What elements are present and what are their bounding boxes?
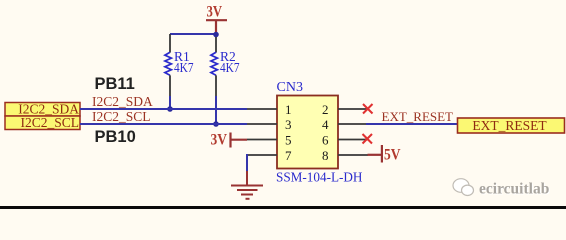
svg-text:6: 6 bbox=[322, 133, 329, 148]
wire pin4 to port bbox=[366, 123, 457, 125]
svg-text:3: 3 bbox=[285, 117, 292, 132]
svg-text:CN3: CN3 bbox=[277, 80, 303, 95]
no-ERC marker pin 6 bbox=[363, 134, 373, 144]
wire top horizontal bbox=[170, 33, 216, 35]
pin 3 bbox=[247, 123, 277, 125]
svg-text:4K7: 4K7 bbox=[220, 60, 240, 75]
power port 3V at pin 5 bbox=[211, 132, 248, 149]
svg-text:SSM-104-L-DH: SSM-104-L-DH bbox=[276, 170, 363, 185]
svg-text:4K7: 4K7 bbox=[174, 60, 194, 75]
svg-text:I2C2_SCL: I2C2_SCL bbox=[20, 115, 79, 130]
wire R1 bottom bbox=[169, 96, 171, 109]
wire SCL bbox=[80, 123, 247, 125]
pin 6 bbox=[338, 139, 368, 141]
svg-text:PB11: PB11 bbox=[95, 75, 135, 93]
svg-text:3V: 3V bbox=[207, 4, 223, 21]
pin 4 bbox=[338, 123, 368, 125]
watermark text ecircuitlab bbox=[479, 181, 550, 199]
svg-text:5V: 5V bbox=[384, 146, 401, 163]
junction dot top bbox=[213, 32, 219, 38]
svg-text:8: 8 bbox=[322, 148, 329, 163]
svg-text:ecircuitlab: ecircuitlab bbox=[479, 181, 549, 198]
port EXT_RESET bbox=[458, 118, 565, 133]
wire SDA bbox=[80, 108, 247, 110]
no-ERC marker pin 2 bbox=[363, 104, 373, 114]
power port 5V bbox=[368, 145, 401, 163]
junction dot R1/SDA bbox=[167, 106, 173, 112]
port I2C2_SDA bbox=[5, 102, 80, 117]
pin 1 bbox=[247, 108, 277, 110]
connector CN3 body bbox=[277, 96, 338, 169]
svg-text:4: 4 bbox=[322, 117, 329, 132]
svg-text:7: 7 bbox=[285, 148, 292, 163]
resistor R1 bbox=[165, 34, 194, 96]
resistor R2 bbox=[211, 37, 240, 96]
pin 7 bbox=[247, 154, 277, 156]
wire R2 bottom bbox=[215, 96, 217, 124]
svg-text:EXT_RESET: EXT_RESET bbox=[472, 118, 547, 133]
power port 3V top bbox=[206, 4, 227, 35]
svg-text:1: 1 bbox=[285, 102, 292, 117]
svg-text:2: 2 bbox=[322, 102, 329, 117]
svg-text:5: 5 bbox=[285, 133, 292, 148]
pin 2 bbox=[338, 108, 368, 110]
svg-text:3V: 3V bbox=[211, 132, 228, 149]
junction dot R2/SCL bbox=[213, 121, 219, 127]
pin 5 bbox=[247, 139, 277, 141]
svg-text:EXT_RESET: EXT_RESET bbox=[382, 109, 454, 124]
svg-text:I2C2_SCL: I2C2_SCL bbox=[92, 109, 151, 124]
svg-text:PB10: PB10 bbox=[95, 128, 136, 146]
port I2C2_SCL bbox=[5, 115, 80, 130]
wire pin7 to ground bbox=[246, 154, 248, 171]
ground bbox=[231, 171, 263, 199]
svg-text:I2C2_SDA: I2C2_SDA bbox=[92, 94, 153, 109]
pin 8 bbox=[338, 154, 368, 156]
bottom bar bbox=[0, 206, 566, 209]
watermark wechat icon bbox=[453, 179, 474, 196]
